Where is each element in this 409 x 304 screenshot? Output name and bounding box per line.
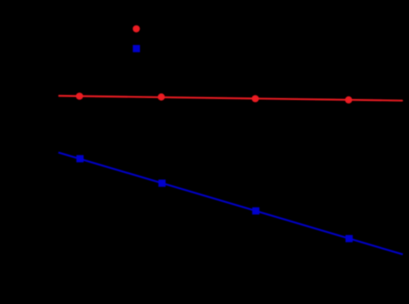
blue square marker: point 2 (158, 180, 165, 187)
red circle marker: point 2 (158, 93, 165, 100)
legend marker: blue square (series 2) (133, 45, 140, 52)
red circle marker: point 1 (76, 93, 83, 100)
blue square marker: point 1 (76, 155, 83, 162)
red data line (series 1) (58, 96, 402, 101)
blue square marker: point 3 (252, 207, 259, 214)
blue data line (series 2) (58, 153, 402, 255)
legend marker: red circle (series 1) (133, 25, 140, 32)
blue square marker: point 4 (346, 235, 353, 242)
red circle marker: point 3 (252, 95, 259, 102)
red circle marker: point 4 (345, 96, 352, 103)
